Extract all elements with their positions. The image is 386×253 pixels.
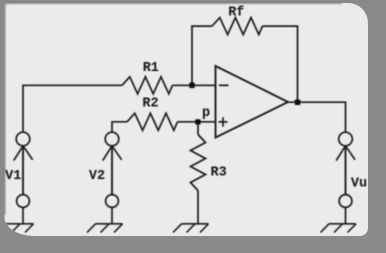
source V1 [14, 132, 33, 224]
wire: R3 to ground [197, 191, 199, 224]
wire: R1 to inverting input of op-amp [173, 84, 216, 86]
svg-text:R3: R3 [210, 166, 226, 181]
svg-text:p: p [202, 106, 210, 121]
resistor R1 [122, 77, 173, 94]
svg-text:V2: V2 [89, 169, 105, 184]
svg-text:Rf: Rf [228, 5, 244, 20]
svg-text:Vu: Vu [351, 177, 367, 192]
wire: op-amp output to Vu [288, 102, 346, 132]
wire: V2 to R2 left lead [112, 122, 127, 133]
node: output junction [295, 100, 300, 105]
panel edge shading [5, 3, 342, 215]
op-amp minus sign [219, 84, 229, 86]
op-amp U1 [216, 66, 289, 138]
ground (R3) [173, 224, 209, 233]
node p: non-inverting input junction [195, 119, 200, 124]
svg-text:R2: R2 [142, 97, 158, 112]
source Vu [336, 132, 355, 224]
wire: feedback loop left vertical [192, 26, 212, 85]
svg-text:V1: V1 [5, 169, 21, 184]
resistor R3 [191, 135, 206, 191]
resistor Rf [212, 18, 263, 35]
source V2 [103, 132, 122, 224]
resistor R2 [127, 113, 178, 130]
wire: feedback loop right vertical [263, 26, 298, 102]
op-amp plus sign [219, 121, 228, 123]
wire: node p down to R3 [197, 122, 199, 135]
node: inverting input junction [189, 83, 194, 88]
wire: R2 to non-inverting input of op-amp [178, 121, 216, 123]
wire: V1 to R1 left lead [23, 85, 122, 132]
ground (V2) [87, 224, 123, 233]
ground (Vu) [321, 224, 357, 233]
ground (V1) [0, 224, 34, 233]
svg-text:R1: R1 [143, 61, 159, 76]
